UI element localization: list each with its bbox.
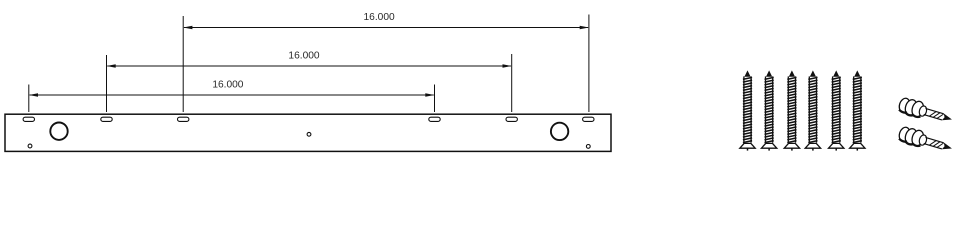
slot hole 4: [429, 117, 440, 121]
slot hole 1: [23, 117, 34, 121]
screw 4: [805, 70, 820, 150]
svg-text:16.000: 16.000: [288, 50, 319, 61]
mounting rail bar outline: [5, 114, 611, 151]
small hole left: [28, 144, 32, 148]
screw 5: [829, 70, 844, 150]
dimension line 2 (middle, 16.000): [107, 64, 512, 67]
small hole right: [586, 145, 590, 149]
large hole right: [551, 123, 568, 140]
slot hole 2: [101, 117, 112, 121]
svg-text:16.000: 16.000: [212, 79, 243, 90]
small hole center: [307, 132, 311, 136]
screw 3: [784, 70, 799, 150]
wall anchor 1: [897, 96, 954, 127]
extension line x=106.5 (dim2 left): [106, 55, 108, 112]
svg-text:16.000: 16.000: [364, 12, 395, 23]
slot hole 3: [178, 117, 189, 121]
extension line x=434.5 (dim3 right): [434, 85, 436, 113]
dimension line 1 (top, 16.000): [183, 26, 589, 29]
extension line x=511.7 (dim2 right): [511, 54, 513, 112]
extension line x=183.2 (dim1 left): [182, 16, 184, 112]
wall anchor 2: [897, 125, 954, 156]
slot hole 6: [583, 117, 594, 121]
screw 2: [761, 70, 776, 150]
screw 1: [740, 70, 755, 150]
extension line x=588.9 (dim1 right): [588, 15, 590, 113]
extension line x=28.8 (dim3 left): [28, 85, 30, 113]
large hole left: [50, 123, 67, 140]
screw 6: [850, 70, 865, 150]
dimension line 3 (bottom, 16.000): [29, 93, 435, 96]
slot hole 5: [506, 117, 517, 121]
